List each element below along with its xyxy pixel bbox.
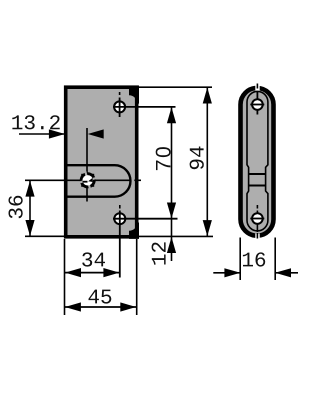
side view top hole centerline white gap — [255, 84, 259, 91]
side view bottom centerline white gap — [255, 234, 259, 240]
extension line left below plate — [64, 239, 66, 315]
dimension 12 bottom arrow — [167, 237, 176, 253]
side view top hole centerline horizontal — [250, 104, 264, 106]
dimension 16 line left — [213, 272, 240, 274]
bottom hole centerline vertical / extension to 34 dim — [119, 211, 121, 278]
top hole centerline horizontal — [113, 106, 176, 108]
side view spindle boss bar top — [249, 173, 266, 175]
side view bottom hole centerline tick — [256, 205, 258, 209]
dimension 12 text — [152, 242, 166, 264]
dimension 36 arrow down — [25, 220, 34, 236]
dimension 94 arrow down — [203, 220, 212, 236]
dimension 36 text — [9, 196, 23, 219]
dimension 16 arrow pointing left — [275, 268, 291, 277]
centerline dash right of slot — [134, 179, 141, 181]
dimension 45 text — [89, 290, 112, 304]
side view bottom hole — [252, 213, 263, 224]
dimension 45 line — [65, 306, 137, 308]
extension line right below plate — [136, 239, 138, 315]
side view bottom hole centerline horizontal — [250, 218, 264, 220]
side view top hole — [252, 99, 263, 110]
bottom hole H2 — [114, 213, 125, 224]
side view bottom centerline tick — [256, 233, 258, 239]
dimension 94 text — [190, 147, 204, 170]
dimension 13.2 arrow left — [88, 129, 104, 138]
side view bottom hole centerline vertical — [256, 211, 258, 233]
dimension 70 text — [156, 147, 171, 170]
dimension 13.2 line — [19, 133, 65, 135]
bottom hole centerline horizontal — [113, 218, 178, 220]
side view outer profile — [241, 88, 274, 236]
dimension 34 arrow right — [103, 268, 119, 277]
dimension 36 arrow up — [25, 181, 34, 197]
spindle centerline horizontal — [25, 179, 130, 181]
spindle hole — [76, 169, 100, 193]
top-right corner notch — [129, 86, 139, 104]
dimension 13.2 arrow right — [49, 129, 65, 138]
dimension 13.2 text — [12, 115, 59, 129]
plate bottom edge extension right — [139, 235, 213, 237]
top hole H1 — [114, 101, 125, 112]
dimension 34 line — [65, 272, 120, 274]
dimension 94 line — [206, 87, 208, 236]
keyhole slot outline — [67, 165, 131, 197]
dimension 16 extension left — [239, 238, 241, 281]
side view top hole centerline vertical — [256, 91, 258, 115]
plate top edge extension — [139, 86, 212, 88]
dimension 70 arrow up — [167, 107, 176, 123]
dimension 16 arrow pointing right — [224, 268, 240, 277]
spindle centerline vertical — [86, 128, 88, 202]
side view inner outline — [247, 91, 268, 230]
top hole centerline vertical tick — [119, 92, 121, 95]
plate body (front view) — [66, 87, 137, 237]
dimension 36 extension bottom — [25, 235, 66, 237]
dimension 94 arrow up — [203, 88, 212, 104]
bottom hole centerline vertical tick — [119, 205, 121, 209]
side view top hole centerline tick — [256, 84, 258, 89]
dimension 34 text — [82, 252, 105, 266]
dimension 16 extension right — [274, 238, 276, 281]
top hole centerline vertical — [119, 98, 121, 118]
dimension 45 arrow left — [65, 302, 81, 311]
bottom-right corner notch — [129, 223, 139, 239]
dimension 36 line — [29, 180, 31, 236]
dimension 16 line right — [275, 272, 298, 274]
dimension 16 text — [243, 252, 265, 266]
side view spindle boss bar bottom — [249, 185, 266, 187]
dimension 70 arrow down / 12 top arrow — [167, 203, 176, 219]
dimension 70 line — [171, 107, 173, 261]
dimension 34 arrow left — [65, 268, 81, 277]
dimension 45 arrow right — [120, 302, 136, 311]
